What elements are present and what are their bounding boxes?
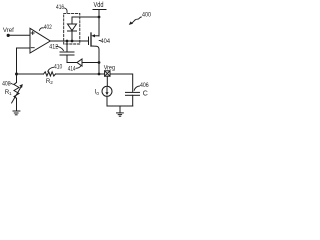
svg-text:408: 408 [2, 81, 11, 88]
node feedback junction [15, 73, 18, 76]
wire Vreg pin to cap branch [110, 74, 133, 92]
svg-text:Vref: Vref [3, 27, 14, 34]
svg-text:Vdd: Vdd [94, 0, 104, 9]
label 414 [68, 66, 76, 73]
current source I0 [102, 86, 112, 96]
ground (bottom rail) [119, 106, 121, 113]
svg-text:0: 0 [96, 91, 99, 96]
drain lead [91, 46, 99, 50]
svg-text:406: 406 [140, 82, 149, 89]
resistor R1 (variable) [14, 83, 19, 99]
wire down to R1 [16, 74, 18, 83]
wire drain down [98, 50, 100, 75]
label 410 [54, 64, 63, 71]
svg-text:C: C [143, 90, 148, 97]
power Vdd [94, 0, 104, 9]
node cap412 junction [66, 40, 69, 43]
wire arrow to drain line [82, 62, 99, 64]
gate bar [88, 37, 90, 45]
node diode-top junction on Vdd line [98, 16, 101, 19]
svg-text:412: 412 [49, 44, 58, 51]
source lead with arrow [95, 35, 100, 37]
wire op-amp output to gate [50, 40, 88, 42]
svg-text:414: 414 [68, 66, 76, 73]
wire bottom rail [107, 105, 133, 107]
transistor Q404 [89, 33, 100, 50]
node Vreg label [104, 64, 116, 71]
svg-text:1: 1 [9, 91, 12, 96]
label 412 [49, 44, 58, 51]
wire R2 to Vreg pin [56, 73, 105, 75]
wire diode top branch [72, 17, 99, 24]
label 402 [44, 24, 52, 31]
node Vreg wire junction [98, 73, 101, 76]
wire I0 to bottom rail [106, 96, 108, 106]
svg-text:402: 402 [44, 24, 52, 31]
svg-text:410: 410 [54, 64, 63, 71]
svg-text:400: 400 [142, 12, 151, 19]
wire op-amp - input feedback [17, 48, 31, 74]
capacitor C412 [66, 41, 68, 52]
dashed box 416 [64, 13, 80, 44]
pin symbol Vreg (crossed box) [105, 71, 110, 76]
capacitor C406 [126, 91, 140, 93]
label 400 (figure reference) [142, 12, 151, 19]
ground (R1) [13, 110, 20, 112]
svg-text:2: 2 [50, 80, 53, 85]
channel bar [90, 33, 92, 46]
wire feedback node to R2 [17, 73, 44, 75]
svg-text:416: 416 [56, 4, 65, 11]
node Vref label [3, 27, 14, 34]
label 406 [140, 82, 149, 89]
label 404 [101, 38, 111, 45]
wire diode cathode to output wire [71, 31, 73, 41]
wire Vdd rail down [98, 10, 100, 37]
label 416 [56, 4, 65, 11]
op-amp U402 [30, 28, 50, 53]
arrow 414 (open arrowhead on wire) [77, 59, 82, 66]
node diode junction [71, 40, 74, 43]
node arrow-wire junction [98, 61, 101, 64]
node Vref terminal dot [7, 34, 10, 37]
label 408 [2, 81, 11, 88]
wire R1 to ground [16, 98, 18, 111]
wire pin down to current source [106, 76, 108, 86]
svg-text:404: 404 [101, 38, 111, 45]
diode D416 [68, 24, 77, 31]
wire Vref to op-amp + input [8, 34, 30, 36]
resistor R2 [44, 72, 56, 76]
